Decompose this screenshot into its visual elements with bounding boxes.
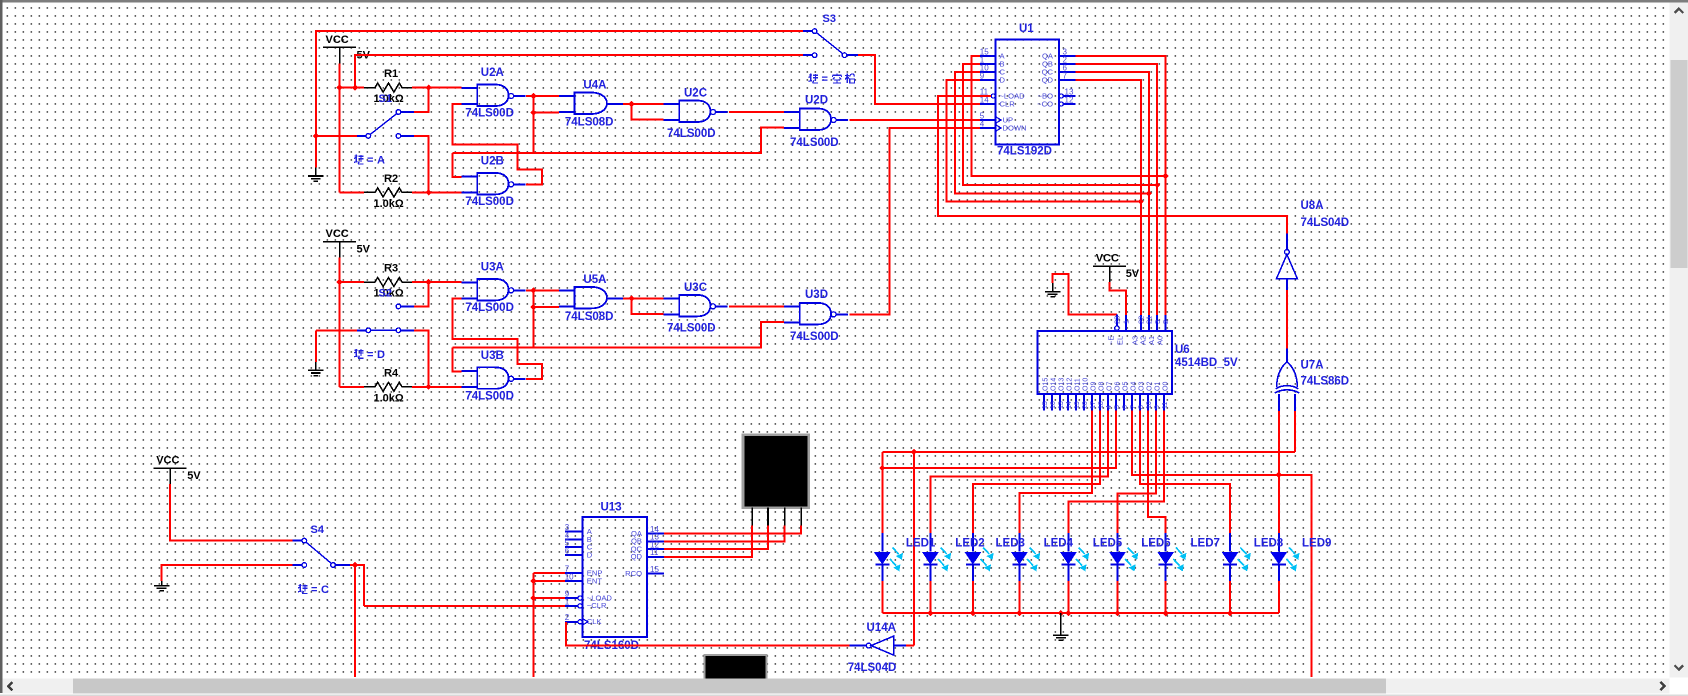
pins U6 O15..O0 [1043,394,1045,411]
svg-text:74LS86D: 74LS86D [1301,376,1350,388]
svg-text:10: 10 [565,572,574,581]
wire S2 upper throw to R3 node [414,282,429,306]
svg-text:D: D [587,550,593,559]
svg-text:8: 8 [1138,405,1145,409]
svg-text:LED5: LED5 [1093,538,1123,550]
svg-text:~CO: ~CO [1037,99,1053,108]
svg-text:O9: O9 [1091,382,1098,391]
wire LED5 cathode to rail [1117,581,1119,613]
node junction R3-S2 [425,279,431,285]
component black box 2 (bottom) [705,655,767,680]
svg-text:O1: O1 [1155,382,1162,391]
wire O9 to LED3 [1019,411,1092,534]
svg-text:U3D: U3D [805,289,828,301]
horizontal scrollbar track [2,678,1669,693]
wire O4 to LED8/LED9 net [1132,411,1311,678]
svg-text:74LS00D: 74LS00D [667,322,716,334]
wire U7A.in2 from net O6 [1294,411,1296,452]
svg-text:9: 9 [1154,405,1161,409]
wire U1.A preset loop [972,56,1166,176]
svg-text:CLR: CLR [1000,99,1016,108]
switch S2 key D [357,329,366,331]
wire LED1 cathode to rail [929,581,931,613]
led LED2 [972,533,974,552]
wire R3 to U3A input [412,281,462,283]
wire R2 feed [340,191,365,193]
wire U2B output cross-couple to U2A.in2 [452,104,542,184]
wire LED8 cathode to rail [1278,581,1280,613]
svg-text:14: 14 [1066,401,1073,409]
ic U13 74LS160D counter [582,517,647,637]
wire QB to U6.A1 [1076,64,1158,315]
wire LED0 column [881,452,883,533]
svg-text:U13: U13 [601,502,622,514]
wire S1 upper throw to R1 node [414,88,429,112]
svg-text:74LS00D: 74LS00D [465,302,514,314]
svg-text:U2C: U2C [684,88,707,100]
nand gate U2B 74LS00D [477,173,508,195]
svg-text:5V: 5V [357,244,371,256]
wire VCC4 to S4 upper throw [170,484,292,540]
svg-text:~CLR: ~CLR [587,601,607,610]
wire VCC1 rail down to R2 [339,63,341,192]
svg-text:U3B: U3B [481,350,504,362]
node junction ENT [530,578,536,584]
led LED5 [1117,533,1119,552]
svg-text:O10: O10 [1083,378,1090,391]
label key=A [354,155,364,164]
svg-text:U5A: U5A [583,274,606,286]
wire U7A out to U8A in [1286,290,1288,348]
wire LED7 cathode to rail [1229,581,1231,613]
wire O3 to LED7 [1140,411,1230,534]
pin U6 ~E 23 [1115,326,1119,330]
node junction S4 net [352,562,358,568]
ground GND3 [1052,283,1054,292]
svg-text:18: 18 [1098,401,1105,409]
resistor R2 1.0kohm [364,188,413,197]
svg-text:74LS00D: 74LS00D [790,331,839,343]
resistor R3 1.0kohm [364,278,413,287]
svg-text:LED1: LED1 [906,538,936,550]
ground GND5 [161,581,163,586]
svg-text:74LS00D: 74LS00D [465,108,514,120]
svg-text:S1: S1 [379,93,392,105]
svg-text:16: 16 [1050,401,1057,409]
wire VCC2 rail down to R4 [339,258,341,387]
wire U1 LOAD to U8A output [938,96,1287,234]
wire Q2 horizontal to U3D.in2 [452,322,784,348]
svg-text:5V: 5V [1126,268,1140,280]
window left border [0,0,2,693]
svg-text:U2A: U2A [481,67,504,79]
wire S4 lower throw to ground [162,565,293,581]
vertical scrollbar down arrow [1675,665,1684,669]
svg-text:U14A: U14A [867,622,896,634]
svg-text:CLK: CLK [587,617,602,626]
led LED1 [929,533,931,552]
vertical scrollbar up arrow [1675,9,1684,13]
svg-text:74LS04D: 74LS04D [1301,217,1350,229]
svg-text:D: D [377,349,385,361]
svg-text:LED6: LED6 [1141,538,1170,550]
svg-text:74LS00D: 74LS00D [790,137,839,149]
svg-text:17: 17 [1090,401,1097,409]
svg-text:12: 12 [1065,95,1074,104]
svg-text:VCC: VCC [326,228,349,240]
wire U14A input riser [913,452,915,646]
svg-text:7: 7 [1063,71,1068,80]
display U12 seven-segment (black) [743,435,809,508]
wire O0 to LED4 [1068,411,1164,534]
led LED0 unlabeled [881,533,883,552]
ground GND1 [315,167,317,176]
led LED8 [1278,533,1280,552]
wire O2 to LED6 [1148,411,1166,534]
svg-text:O8: O8 [1099,382,1106,391]
display pins [751,508,753,526]
wire ENP/ENT/LOAD common vertical [532,573,534,677]
wire ground rail to S3 upper throw [316,31,803,167]
led LED7 [1229,533,1231,552]
nand gate U2A 74LS00D [477,85,508,107]
wire 5V branch to S3 lower throw [355,55,803,87]
wire U2C out to U2D.in1 [729,111,784,113]
wire O8 to LED2 [973,411,1100,534]
svg-text:LED2: LED2 [955,538,984,550]
svg-text:A0: A0 [1155,336,1164,345]
wire U2A output net Q [526,96,533,153]
node junction 5V-R1 [352,84,358,90]
svg-text:U3A: U3A [481,261,504,273]
svg-text:LED8: LED8 [1254,538,1284,550]
svg-text:1.0kΩ: 1.0kΩ [374,392,404,404]
svg-text:S4: S4 [311,524,325,536]
wire R2 to U2B input [412,191,462,193]
wire U14A input from net O6 [906,645,914,647]
svg-text:U3C: U3C [684,282,707,294]
svg-text:EL: EL [1115,336,1124,345]
nand gate U3C 74LS00D [679,295,710,317]
node junction rail-ground [1058,610,1064,616]
wire cathode rail [882,612,1279,614]
wire ground to U6 ~E [1053,274,1117,314]
wire U3D out up to U1 DOWN pin [849,128,980,314]
pin U6 EL 1 [1125,315,1127,331]
svg-text:D: D [1000,75,1006,84]
svg-text:1: 1 [1121,320,1130,324]
svg-text:7: 7 [1130,405,1137,409]
horizontal scrollbar right arrow [1660,682,1664,690]
svg-text:R3: R3 [384,263,398,275]
wire LED4 cathode to rail [1067,581,1069,613]
svg-text:74LS08D: 74LS08D [565,311,614,323]
svg-text:R4: R4 [384,367,399,379]
svg-text:U4A: U4A [583,80,606,92]
svg-text:=: = [367,349,373,361]
wire QB to display pin [664,525,785,541]
wire S4 net down off-canvas [354,565,356,677]
wire O6 to LED0 net [882,411,1116,469]
wire U1.D preset loop [947,80,1141,202]
node junction Q2-U5A.in2 [530,304,536,310]
wire QD to U6.A3 [1076,80,1141,315]
svg-text:4: 4 [1106,405,1113,409]
svg-text:74LS192D: 74LS192D [997,146,1052,158]
vertical scrollbar thumb [1671,60,1688,268]
svg-text:O4: O4 [1131,382,1138,391]
wire LED8 column up to junction [1278,475,1280,533]
wire R1 feed [340,87,365,89]
svg-text:C: C [321,584,329,596]
svg-text:19: 19 [1074,401,1081,409]
svg-text:U1: U1 [1019,23,1034,35]
svg-text:5V: 5V [187,470,201,482]
node junction Q-U4A.in1 [530,93,536,99]
resistor R1 1.0kohm [364,83,413,92]
svg-text:O0: O0 [1163,382,1170,391]
svg-text:DOWN: DOWN [1003,123,1027,132]
svg-text:9: 9 [980,71,985,80]
svg-text:4514BD_5V: 4514BD_5V [1175,357,1238,369]
wire U3B output cross-couple to U3A.in2 [452,298,542,378]
nand gate U2C 74LS00D [679,101,710,123]
svg-text:13: 13 [1058,401,1065,409]
svg-text:74LS04D: 74LS04D [848,662,897,674]
svg-text:74LS00D: 74LS00D [667,128,716,140]
ground GND2 [315,362,317,371]
svg-text:15: 15 [1042,401,1049,409]
svg-text:74LS00D: 74LS00D [465,196,514,208]
svg-text:LED4: LED4 [1044,538,1074,550]
svg-text:VCC: VCC [1096,253,1119,265]
svg-text:20: 20 [1082,401,1089,409]
window bottom edge [0,695,1688,696]
horizontal scrollbar left arrow [8,682,12,690]
xor gate U7A 74LS86D [1286,348,1288,361]
wire U5A out to U3C inputs [623,297,664,299]
svg-text:O12: O12 [1067,378,1074,391]
nand gate U3A 74LS00D [477,279,508,301]
svg-text:QD: QD [631,552,643,561]
node junction VCC-R1 [336,84,342,90]
svg-text:2: 2 [565,613,570,622]
inverter U14A 74LS04D [850,645,867,647]
svg-text:10: 10 [1146,401,1153,409]
svg-text:1: 1 [565,597,570,606]
svg-text:LED7: LED7 [1191,538,1220,550]
wire R1 to U2A input [412,87,462,89]
horizontal scrollbar thumb [73,678,1386,693]
led LED6 [1165,533,1167,552]
wire LED2 cathode to rail [972,581,974,613]
wire R4 to U3B input [412,386,462,388]
wire U1.B preset loop [963,64,1157,185]
node junction LOAD13 [530,595,536,601]
ground GND4 [1060,613,1062,635]
wire U4A out to U2C inputs [623,103,664,105]
svg-text:11: 11 [650,548,659,557]
svg-text:=: = [311,584,317,596]
node junction R1-S1 [425,84,431,90]
svg-text:O2: O2 [1147,382,1154,391]
wire VCC3 to U6.EL [1110,282,1126,315]
wire O7 to LED1 [930,411,1108,534]
node junction O4-LED8 [1276,472,1282,478]
svg-text:1.0kΩ: 1.0kΩ [374,198,404,210]
wire U3C out to U3D.in1 [729,305,784,307]
label key=C [298,584,308,593]
svg-text:O5: O5 [1123,382,1130,391]
svg-text:S3: S3 [823,13,836,25]
wire S4 to U13 ~CLR [364,605,565,607]
svg-text:R2: R2 [384,173,398,185]
power VCC4 5V [154,467,187,469]
wire QC to U6.A2 [1076,72,1149,315]
node junction VCC2-R3 [336,279,342,285]
svg-text:23: 23 [1113,316,1122,324]
wire U3A output net Q2 [526,290,533,347]
pins U6 A3 A2 A1 A0 [1140,315,1142,331]
svg-text:O3: O3 [1139,382,1146,391]
wire LED6 cathode to rail [1165,581,1167,613]
nand gate U2D 74LS00D [800,109,831,131]
inverter U8A 74LS04D [1286,234,1288,250]
wire S2 lower throw to R4 node [414,330,429,387]
wire QC to display pin [664,525,768,549]
svg-text:2: 2 [1161,320,1170,324]
wire S1 lower throw to R2 node [414,136,429,193]
resistor R4 1.0kohm [364,382,413,391]
power VCC2 5V [323,241,356,243]
svg-text:5: 5 [1114,405,1121,409]
wire U1.C preset loop [955,72,1149,193]
wire LED3 cathode to rail [1018,581,1020,613]
svg-text:U2D: U2D [805,95,828,107]
wire R4 feed [340,386,365,388]
node junction S1 pole rail [313,133,319,139]
nand gate U3D 74LS00D [800,303,831,325]
svg-text:LED9: LED9 [1302,538,1331,550]
node junction R2-S1 [425,189,431,195]
wire QA to U6.A0 [1076,56,1166,315]
switch S4 key C [292,540,302,542]
node junction Q-U4A.in2 [530,110,536,116]
node junction R4-S2 [425,384,431,390]
svg-text:15: 15 [650,565,659,574]
wire U2D out to U1 UP pin [849,119,980,121]
switch S1 key A [357,135,366,137]
svg-text:=: = [822,74,828,86]
wire Q down to U2B.in1 [452,153,461,177]
wire QD to display pin [664,525,752,556]
svg-text:QD: QD [1042,75,1054,84]
wire Q horizontal to U2D.in2 [452,127,784,152]
power VCC1 5V [323,46,356,48]
and gate U4A 74LS08D [574,93,607,115]
wire U7A.in1 from net O4 [1278,411,1280,475]
and gate U5A 74LS08D [574,287,607,309]
svg-text:O7: O7 [1107,382,1114,391]
led LED3 [1018,533,1020,552]
label key=space [809,74,819,83]
svg-text:U7A: U7A [1301,360,1324,372]
wire net O6 top horizontal to U7A.in2 [882,451,1295,453]
svg-text:VCC: VCC [156,455,179,467]
svg-text:4: 4 [980,119,985,128]
svg-text:O15: O15 [1043,378,1050,391]
wire S1 pole to ground rail [316,135,357,137]
svg-text:RCO: RCO [625,569,642,578]
window top border [0,0,1688,3]
svg-text:74LS08D: 74LS08D [565,117,614,129]
wire R3 feed [340,281,365,283]
wire S2 pole to ground [316,329,357,331]
svg-text:U2B: U2B [481,155,504,167]
wire U14A out to U13 CLK [566,622,849,646]
svg-text:74LS00D: 74LS00D [465,390,514,402]
svg-text:O13: O13 [1059,378,1066,391]
svg-text:S2: S2 [379,288,392,300]
svg-text:R1: R1 [384,68,398,80]
switch S3 key space [803,30,812,32]
svg-text:~E: ~E [1107,336,1116,345]
wire Q2 down to U3B.in1 [452,347,461,371]
nand gate U3B 74LS00D [477,367,508,389]
svg-text:VCC: VCC [326,34,349,46]
wire S4 pole to U13 ~CLR [350,565,364,606]
ic U6 4514BD_5V decoder [1037,331,1171,394]
svg-text:A: A [377,155,385,167]
svg-text:6: 6 [565,546,570,555]
svg-text:6: 6 [1122,405,1129,409]
svg-text:U6: U6 [1175,344,1190,356]
wire QA to display pin [664,525,801,533]
node junction Q2-U5A.in1 [530,287,536,293]
ic U1 74LS192D counter [996,40,1060,145]
svg-text:ENT: ENT [587,576,603,585]
svg-text:LED3: LED3 [996,538,1025,550]
svg-text:O6: O6 [1115,382,1122,391]
svg-text:11: 11 [1162,402,1169,409]
label key=D [354,349,364,358]
vertical scrollbar track [1670,3,1688,678]
svg-text:=: = [367,155,373,167]
power VCC3 5V [1093,265,1126,267]
led LED4 [1067,533,1069,552]
svg-text:O14: O14 [1051,378,1058,391]
wire O1 to LED5 [1118,411,1157,534]
node junction U14A input riser [911,449,917,455]
svg-text:O11: O11 [1075,378,1082,391]
wire S3 pole to U1 CLR [858,55,980,104]
svg-text:U8A: U8A [1301,200,1324,212]
